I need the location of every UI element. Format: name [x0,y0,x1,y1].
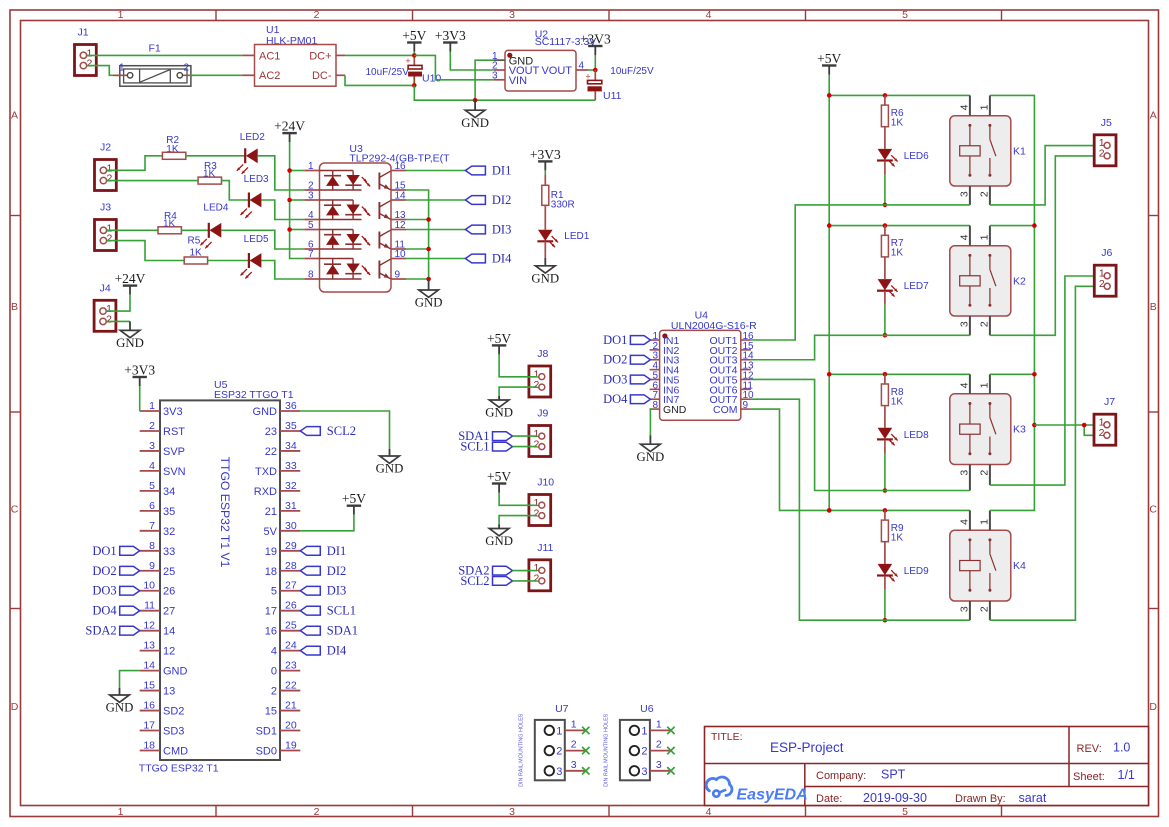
svg-text:5: 5 [271,586,277,598]
svg-text:11: 11 [144,600,155,612]
ground below U3 [415,279,443,310]
junction dot R9 top [883,508,888,513]
svg-text:2: 2 [1099,148,1105,160]
svg-text:2: 2 [534,573,540,585]
ground at U5 pin36 [376,449,404,476]
svg-text:21: 21 [285,700,297,712]
svg-text:1K: 1K [891,533,904,544]
svg-text:SVP: SVP [163,446,185,458]
net flag SDA1 [300,624,358,638]
svg-text:GND: GND [485,406,513,420]
wire +5V rail to K4 coil row [829,509,970,511]
wire +5V rail to K3 coil row [829,373,970,375]
svg-text:C: C [11,504,19,516]
junction dot ground rail [473,98,478,103]
svg-text:F1: F1 [149,43,161,55]
LED LED1 [537,230,558,248]
svg-text:21: 21 [265,506,277,518]
svg-text:5: 5 [902,806,908,818]
svg-text:1: 1 [149,400,155,412]
svg-text:LED9: LED9 [904,566,929,577]
svg-text:+: + [405,56,410,66]
svg-text:A: A [11,110,18,122]
wire U1 DC+ to +5V junction [345,54,414,56]
net flag SDA1 [458,429,512,443]
IC U5 ESP32 TTGO T1 [139,379,300,775]
wire ground rail below U2 [414,85,595,100]
svg-text:2: 2 [314,9,320,21]
svg-text:1/1: 1/1 [1118,768,1135,782]
wire K1 pin2 to J5.1 [990,146,1103,205]
svg-text:DIN RAIL MOUNTING HOLES: DIN RAIL MOUNTING HOLES [603,713,609,787]
svg-text:24: 24 [285,640,297,652]
frame column ticks top [216,10,1002,21]
svg-text:LED7: LED7 [904,281,929,292]
junction dot cap bottom [412,83,417,88]
svg-text:A: A [1150,110,1157,122]
wire U4 GND pin8 to ground [649,409,652,435]
svg-text:GND: GND [163,666,188,678]
svg-text:33: 33 [163,546,175,558]
svg-text:U11: U11 [603,90,622,102]
svg-text:19: 19 [285,739,297,751]
svg-text:+5V: +5V [817,51,841,66]
wire U4 OUT1 to K1 coil [751,205,970,340]
svg-text:3: 3 [959,606,971,612]
ground at U4 [637,435,665,464]
wire U3 to DI1 [406,170,465,172]
svg-text:3: 3 [656,759,662,771]
svg-text:4: 4 [959,519,971,525]
svg-text:3: 3 [149,440,155,452]
svg-text:K2: K2 [1013,275,1026,287]
junction dot rail K2 [827,223,832,228]
svg-text:Sheet:: Sheet: [1073,771,1105,783]
wire J10.2 to ground [499,516,537,525]
wire LED8 to bottom row [884,440,886,454]
resistor R5 [184,236,207,265]
svg-text:ESP32 TTGO T1: ESP32 TTGO T1 [214,389,294,401]
junction dot LED7 bottom [883,333,888,338]
net flag SCL1 [300,604,356,618]
svg-text:2: 2 [184,63,190,74]
junction dot LED6 bottom [883,203,888,208]
svg-text:4: 4 [959,234,971,240]
wire +24V rail to U3 pin7 [290,142,305,259]
svg-text:5: 5 [308,220,314,231]
svg-text:10: 10 [143,580,155,592]
connector J1 [75,27,97,76]
U3 opto channel 3 [320,230,391,250]
svg-text:4: 4 [149,460,155,472]
svg-text:1: 1 [119,63,125,74]
wire U5 pin36 GND to ground [300,411,389,449]
svg-text:DI2: DI2 [492,193,511,207]
wire U3 to DI4 [406,258,465,260]
junction dot rail pin5 [287,227,292,232]
svg-text:2: 2 [979,191,991,197]
svg-text:GND: GND [663,404,687,416]
svg-text:15: 15 [143,680,155,692]
svg-text:12: 12 [395,220,407,231]
svg-text:3: 3 [556,766,562,778]
frame column ticks bottom [216,806,1002,817]
svg-text:27: 27 [285,580,297,592]
svg-text:18: 18 [265,566,277,578]
svg-text:DO2: DO2 [92,564,116,578]
svg-text:AC1: AC1 [259,50,280,62]
svg-text:3: 3 [492,70,498,81]
wire +3V3 to R1 [544,170,546,174]
junction dot J7 [1082,423,1087,428]
svg-text:CMD: CMD [163,745,188,757]
svg-text:GND: GND [116,336,144,350]
junction dot pin9 [426,277,431,282]
svg-text:J8: J8 [537,348,548,360]
svg-text:VIN: VIN [509,75,527,87]
svg-text:4: 4 [959,382,971,388]
svg-text:9: 9 [149,560,155,572]
wire +3V3 to U5 pin1 [139,386,141,411]
svg-text:AC2: AC2 [259,70,280,82]
junction dot rail K1 [827,93,832,98]
wire rail to U3 pin3 [290,199,305,201]
capacitor U11 10uF/25V [585,66,654,102]
net flag DI4 [465,252,512,266]
resistor R6 1K [881,95,904,148]
net flag DO4 [603,392,650,406]
svg-text:J10: J10 [537,477,554,489]
svg-text:1: 1 [556,725,562,737]
wire J8.2 to ground [499,387,537,396]
wire K3 pin2 to J6.1 [990,276,1103,485]
svg-text:sarat: sarat [1019,791,1047,805]
junction dot rail K3 [827,372,832,377]
connector J9 [529,408,551,457]
svg-text:4: 4 [579,61,585,72]
svg-text:B: B [11,301,18,313]
frame row ticks left [10,216,21,609]
wire +5V stem to DC+ rail [413,52,415,56]
svg-text:DO2: DO2 [603,353,627,367]
svg-text:34: 34 [163,486,175,498]
wire LED5 to U3 pin8 [261,261,304,280]
svg-text:19: 19 [265,546,277,558]
IC U1 HLK-PM01 [242,24,345,86]
wire LED9 to bottom row [884,576,886,590]
connector J6 [1094,247,1116,296]
svg-text:9: 9 [395,270,401,281]
svg-text:29: 29 [285,540,297,552]
svg-text:TITLE:: TITLE: [711,731,743,743]
wire to J7.2 [1084,425,1103,435]
resistor R4 [158,211,181,234]
svg-text:5: 5 [902,9,908,21]
wire U5 pin30 5V to +5V [300,515,354,531]
svg-text:2: 2 [641,746,647,758]
power flag +3V3 at U11 [580,32,611,56]
svg-text:GND: GND [376,462,404,476]
wire +5V to U2 VIN [414,55,493,79]
power flag +3V3 at R1 [530,147,561,171]
svg-text:2: 2 [107,173,113,185]
svg-text:Date:: Date: [816,793,842,805]
svg-text:SDA2: SDA2 [85,624,116,638]
net flag DO2 [92,564,139,578]
svg-text:COM: COM [713,404,738,416]
wire LED3 to U3 pin4 [261,200,304,220]
svg-text:17: 17 [143,720,155,732]
svg-text:+5V: +5V [342,491,366,506]
svg-text:4: 4 [271,646,277,658]
svg-text:Company:: Company: [816,770,866,782]
svg-text:8: 8 [652,400,658,411]
svg-text:D: D [11,701,19,713]
svg-text:26: 26 [163,586,175,598]
svg-text:DO3: DO3 [92,584,116,598]
svg-text:3: 3 [571,759,577,771]
junction dot DC+ [412,53,417,58]
svg-text:25: 25 [285,620,297,632]
junction dot LED9 bottom [883,618,888,623]
wire U5 pin14 GND to ground [120,671,140,688]
power flag +5V at U5 [342,491,366,515]
svg-text:23: 23 [265,426,277,438]
net flag DO4 [92,604,139,618]
svg-text:GND: GND [461,116,489,130]
svg-text:J1: J1 [78,27,89,39]
wire LED7 to bottom row [884,291,886,305]
wire U3 pin13 to rail [406,219,429,221]
svg-text:4: 4 [706,806,712,818]
wire U3 to DI2 [406,199,465,201]
wire U3 emitter ground rail [406,190,429,279]
wire LED4 to U3 pin6 [221,230,304,249]
mounting holes U7 [518,703,589,787]
title block [705,727,1149,806]
svg-text:1.0: 1.0 [1113,741,1130,755]
wire J7 row [1034,424,1103,426]
svg-text:U7: U7 [555,703,569,715]
relay K3 [950,374,1026,490]
ground at LED1 [531,258,559,286]
ground at J8 [485,396,513,420]
svg-text:2: 2 [534,438,540,450]
svg-text:SCL2: SCL2 [460,574,489,588]
resistor R8 1K [881,374,904,428]
wire J2.2 to R3 [107,180,198,182]
svg-text:ESP-Project: ESP-Project [770,740,844,755]
svg-text:+3V3: +3V3 [580,32,611,47]
svg-text:+3V3: +3V3 [530,147,561,162]
svg-text:8: 8 [149,540,155,552]
frame column labels [118,9,909,818]
svg-text:2019-09-30: 2019-09-30 [863,791,927,805]
connector J11 [529,542,554,591]
svg-text:DI2: DI2 [327,564,346,578]
wire U2 VOUT4 to +3V3 [588,69,595,71]
svg-text:DO1: DO1 [92,544,116,558]
junction dot R8 top [883,372,888,377]
wire U3 to DI3 [406,229,465,231]
svg-text:14: 14 [163,626,175,638]
svg-text:2: 2 [271,686,277,698]
svg-text:REV:: REV: [1077,743,1102,755]
svg-text:17: 17 [265,606,277,618]
svg-text:4: 4 [959,104,971,110]
svg-text:LED3: LED3 [244,174,269,185]
svg-text:1K: 1K [891,248,904,259]
LED LED6 [877,149,898,167]
svg-text:2: 2 [979,606,991,612]
IC U3 TLP292-4 optocoupler [304,143,450,292]
svg-text:DO4: DO4 [603,392,628,406]
svg-text:SCL1: SCL1 [460,440,489,454]
wire rail to U3 pin1 [290,170,305,172]
net flag DI1 [465,164,511,178]
wire U3 pin11 to rail [406,248,429,250]
svg-text:26: 26 [285,600,297,612]
svg-text:J2: J2 [100,142,111,154]
svg-text:4: 4 [706,9,712,21]
svg-text:7: 7 [308,249,314,260]
svg-text:2: 2 [534,379,540,391]
LED LED4 [200,223,221,249]
power flag +24V at J4 [115,271,146,295]
svg-text:5: 5 [149,480,155,492]
junction dot LED8 bottom [883,488,888,493]
svg-text:1K: 1K [190,248,203,259]
relay K1 [950,95,1026,204]
svg-text:DO1: DO1 [603,333,627,347]
svg-text:3: 3 [959,321,971,327]
svg-text:+3V3: +3V3 [124,363,155,378]
svg-text:U10: U10 [422,73,441,85]
junction dot R7 top [883,223,888,228]
svg-text:14: 14 [395,191,407,202]
svg-text:1: 1 [979,234,991,240]
resistor R2 [162,135,185,159]
frame row ticks right [1149,216,1159,609]
svg-text:6: 6 [149,500,155,512]
svg-text:12: 12 [143,620,155,632]
svg-text:DI3: DI3 [327,584,346,598]
svg-text:33: 33 [285,460,297,472]
resistor R9 1K [881,510,904,564]
net flag DI1 [300,544,346,558]
svg-text:1K: 1K [203,169,216,180]
net flag DO1 [92,544,139,558]
svg-text:2: 2 [87,58,93,70]
wire K2 pin1 to chain [990,225,1035,227]
svg-text:K4: K4 [1013,560,1026,572]
svg-text:1K: 1K [891,118,904,129]
IC U2 SC1117-3.3V [492,29,596,92]
svg-text:K3: K3 [1013,424,1026,436]
relay K4 [950,510,1026,620]
wire J2.1 to R2 [107,156,163,171]
svg-text:J11: J11 [537,542,553,554]
svg-text:DI3: DI3 [492,223,511,237]
svg-text:+5V: +5V [402,28,426,43]
svg-text:DI1: DI1 [327,544,346,558]
U3 opto channel 4 [320,259,391,280]
svg-text:SD2: SD2 [163,706,184,718]
svg-text:2: 2 [571,739,577,751]
svg-text:U6: U6 [640,703,654,715]
net flag SCL1 [460,440,512,454]
LED LED8 [877,428,898,446]
svg-text:10uF/25V: 10uF/25V [610,66,654,77]
LED LED2 [237,148,258,174]
svg-text:SCL2: SCL2 [327,424,356,438]
svg-text:13: 13 [143,640,155,652]
junction dot chain J7 row [1032,423,1037,428]
resistor R7 1K [881,226,904,280]
svg-text:2: 2 [1099,427,1105,439]
ground at U5 pin14 [106,688,134,715]
svg-text:27: 27 [163,606,175,618]
svg-text:22: 22 [265,446,277,458]
svg-text:B: B [1150,301,1157,313]
svg-text:2: 2 [314,806,320,818]
svg-text:TTGO ESP32 T1 V1: TTGO ESP32 T1 V1 [218,457,232,568]
connector J5 [1094,117,1116,166]
svg-text:1: 1 [118,9,124,21]
svg-text:32: 32 [285,480,297,492]
svg-text:TXD: TXD [255,466,277,478]
svg-text:1: 1 [308,161,314,172]
svg-text:3: 3 [308,191,314,202]
svg-text:20: 20 [285,720,297,732]
wire relay contact chain K1 pin1 [990,95,1035,510]
svg-text:2: 2 [149,420,155,432]
net flag SDA2 [85,624,139,638]
svg-text:3: 3 [959,191,971,197]
svg-text:J9: J9 [537,408,548,420]
wire +5V rail to K2 coil row [829,225,970,227]
LED LED3 [241,193,262,219]
connector J8 [529,348,551,397]
svg-text:+3V3: +3V3 [435,28,466,43]
svg-text:GND: GND [531,271,559,285]
wire LED1 to GND [544,241,546,257]
svg-text:2: 2 [534,507,540,519]
svg-text:13: 13 [163,686,175,698]
wire LED6 to bottom row [884,161,886,175]
svg-text:10uF/25V: 10uF/25V [366,67,410,78]
svg-text:LED4: LED4 [203,203,228,214]
svg-text:34: 34 [285,440,297,452]
svg-text:31: 31 [285,500,297,512]
wire U4 COM to +5V [751,409,829,510]
power flag +3V3 [435,28,466,52]
U3 opto channel 1 [320,171,391,191]
svg-text:1: 1 [641,725,647,737]
svg-text:+24V: +24V [115,271,146,286]
svg-text:GND: GND [106,701,134,715]
svg-text:SCL1: SCL1 [327,604,356,618]
junction dot rail K4 [827,508,832,513]
wire R5 to LED5 [208,260,249,262]
svg-text:J3: J3 [100,202,111,214]
net flag SCL2 [300,424,356,438]
svg-text:2: 2 [1099,278,1105,290]
connector J10 [529,477,554,526]
wire +3V3 stem to pin4 [594,55,596,70]
junction dot pin11 [426,247,431,252]
svg-text:7: 7 [149,520,155,532]
